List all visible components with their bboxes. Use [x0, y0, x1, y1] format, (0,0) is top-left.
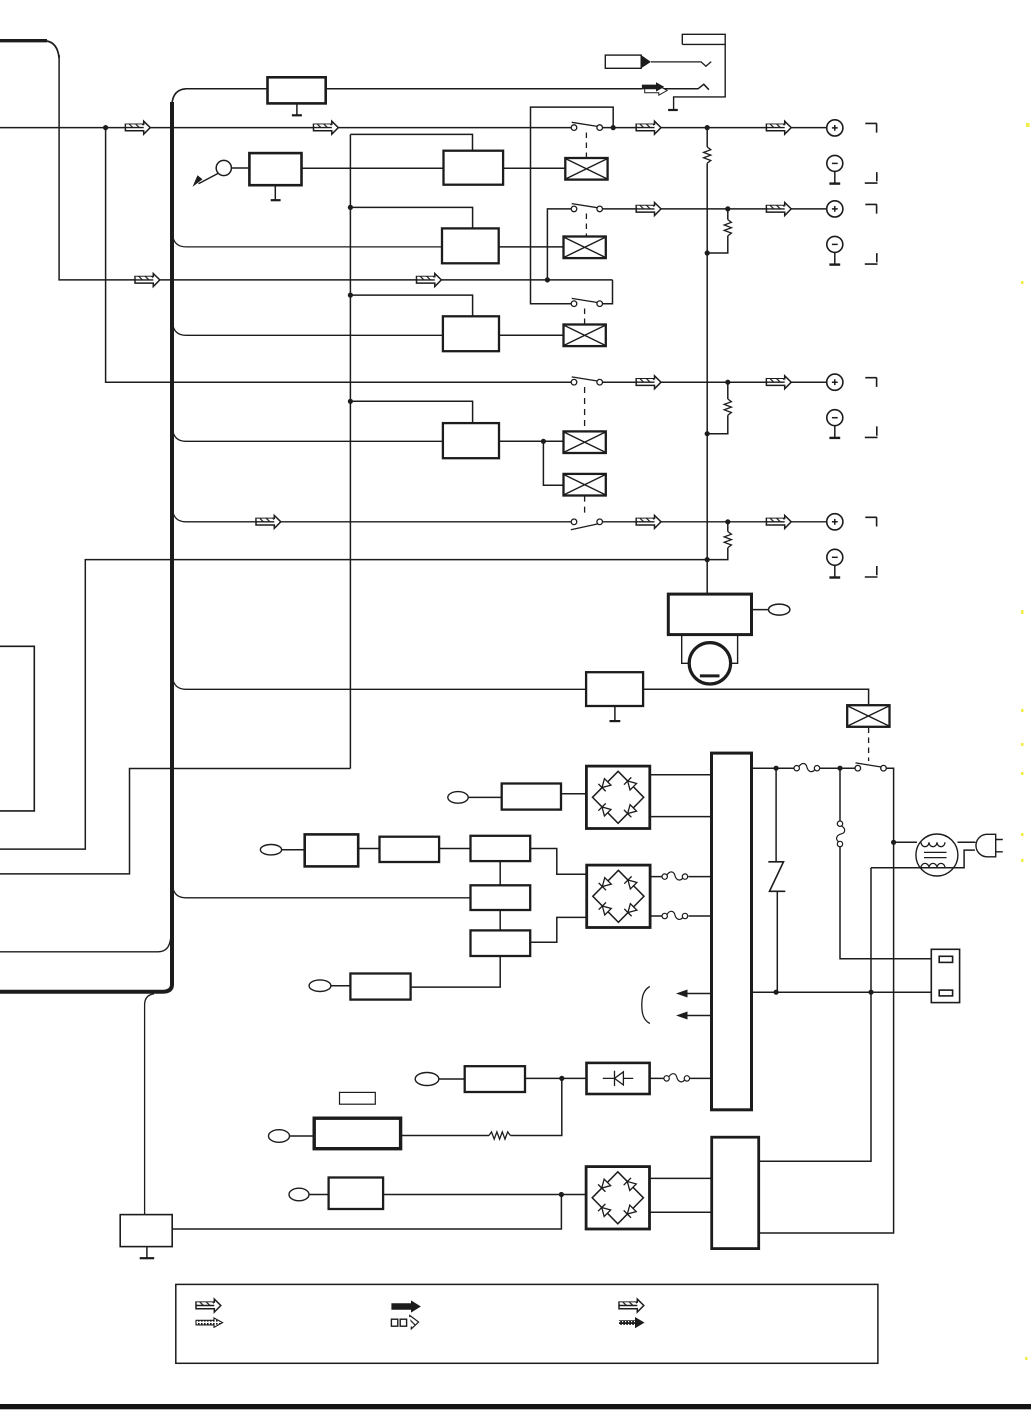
- wire trigger to bridge3: [383, 1194, 586, 1196]
- wire bus branch y88.8 to headphone line: [186, 84, 709, 89]
- switch speaker row2: [571, 204, 602, 212]
- meter bar: [700, 674, 720, 677]
- lamp ellipse: [769, 604, 790, 615]
- wire vertical distribution x350: [349, 134, 351, 768]
- headphone jack body: [674, 34, 726, 110]
- block ps2c: [471, 836, 531, 861]
- diode box D1: [587, 1063, 650, 1094]
- switch speaker row3: [571, 298, 602, 306]
- speaker terminals D: [827, 514, 878, 578]
- wire bridge2 low-out: [649, 915, 711, 917]
- wire into transformer: [894, 841, 917, 843]
- arrow row5 d: [766, 515, 791, 528]
- block left edge tall: [0, 646, 34, 811]
- resistor R3: [724, 399, 731, 415]
- arrow rail left out2: [679, 1015, 712, 1017]
- wire speaker return bus x707: [706, 128, 708, 594]
- pot control circle with arrow: [216, 160, 231, 175]
- wire transformer to plug upper: [958, 841, 976, 843]
- legend arrow dotted: [196, 1318, 223, 1327]
- wire left input lower to x350: [0, 769, 350, 874]
- block selector bottom right: [712, 1137, 759, 1248]
- arrow row1 d: [766, 121, 791, 134]
- transformer circle: [916, 834, 958, 876]
- fuse F5: [664, 1074, 690, 1082]
- node AC fuse-tap: [837, 766, 842, 771]
- block F amp4: [443, 423, 499, 458]
- wire power switch out to transformer: [759, 768, 894, 1233]
- breaker Z wire upper: [775, 768, 777, 862]
- arrow row1 a: [125, 121, 150, 134]
- wire standby: [439, 1078, 465, 1080]
- block ps1: [502, 784, 561, 810]
- wire bus branch y897: [173, 885, 471, 898]
- block ps4: [471, 930, 531, 956]
- node relay4 split: [541, 439, 546, 444]
- node row2 res top: [725, 206, 730, 211]
- resistor R4: [724, 532, 731, 548]
- speaker terminals A: [827, 120, 878, 184]
- switch speaker row5: [571, 519, 603, 530]
- wire trigger: [309, 1194, 329, 1196]
- node trigger join: [559, 1192, 564, 1197]
- wire volume to tone box: [302, 167, 444, 169]
- wire ps4 to bridge2 lower: [530, 917, 587, 942]
- relay coil 4b: [564, 474, 606, 496]
- node x350 tap1: [348, 205, 353, 210]
- wire tap2 to block E: [350, 295, 472, 316]
- transformer primary coil: [921, 842, 945, 846]
- wire C out to relay1: [503, 167, 565, 169]
- wire ps2bc: [439, 848, 470, 850]
- wire bus branch to block E: [173, 322, 443, 335]
- wire bus branch row5: [173, 509, 827, 522]
- node row2 feed tap: [545, 277, 550, 282]
- label small rect: [340, 1092, 376, 1104]
- arrow row5 a: [256, 515, 281, 528]
- arrow row5 c: [636, 515, 661, 528]
- wire bus branch to block D: [173, 234, 443, 247]
- switch speaker row1: [571, 122, 602, 130]
- wire to indicator lamp: [752, 609, 769, 611]
- node row1 x707: [705, 125, 710, 130]
- wire bus drop to muting block: [145, 994, 154, 1215]
- resistor R2: [724, 220, 731, 236]
- node transformer primary: [891, 840, 896, 845]
- wire ps5: [331, 985, 351, 987]
- page bottom rule: [0, 1404, 1031, 1409]
- node x350 tap3: [348, 399, 353, 404]
- arrow rail left out1: [679, 993, 712, 995]
- wire ps2: [282, 849, 305, 851]
- terminal ellipse ps1: [448, 792, 468, 804]
- relay power coil: [847, 705, 889, 727]
- wire resistor up to standby join: [510, 1078, 561, 1135]
- block muting with ground: [120, 1215, 172, 1247]
- wire tap up to row2 switch: [547, 209, 571, 280]
- wire E out to relay3: [499, 334, 564, 336]
- switch power: [855, 763, 886, 771]
- node row1 tap: [103, 125, 108, 130]
- wire ps2c to bridge2: [530, 849, 587, 875]
- legend arrow solid: [391, 1300, 421, 1312]
- wire D out to relay2: [499, 246, 564, 248]
- legend arrow darkdot: [619, 1318, 635, 1325]
- wire bus left branch y951: [0, 939, 171, 952]
- dashed link switch1-relay1: [585, 133, 587, 159]
- arrow row4 d: [766, 376, 791, 389]
- node rail-z: [774, 990, 779, 995]
- AC plug body: [976, 834, 996, 857]
- dashed link relay-power switch: [868, 728, 870, 762]
- wire plug tip to jack contact: [651, 62, 711, 67]
- terminal ellipse ps2: [260, 845, 281, 855]
- wire row1 bypass loop: [531, 107, 614, 304]
- wire remote to resistor: [401, 1135, 489, 1137]
- bridge rectifier 2: [587, 865, 650, 927]
- node AC z-tap: [774, 766, 779, 771]
- relay coil 4a: [564, 431, 606, 453]
- wire ps1: [468, 796, 502, 798]
- wire tap3 to block F: [350, 401, 472, 423]
- terminal ellipse trigger: [289, 1188, 309, 1201]
- ground jack sleeve: [668, 109, 678, 111]
- signal bus thick vertical: [172, 89, 186, 104]
- wire bus branch to block G: [173, 677, 587, 690]
- legend arrow rings: [391, 1316, 418, 1329]
- connector AC outlet: [931, 949, 959, 1002]
- node standby join: [559, 1076, 564, 1081]
- bridge rectifier 3: [586, 1167, 649, 1229]
- relay coil 3: [564, 325, 606, 347]
- arrow row4 c: [636, 376, 661, 389]
- fuse F4: [662, 911, 688, 919]
- dashed link switch3-relay3: [584, 309, 586, 325]
- node row3 res top: [725, 380, 730, 385]
- meter hanger left: [682, 635, 690, 664]
- wire bus branch to block F: [173, 428, 443, 441]
- terminal ellipse ps5: [309, 980, 331, 992]
- resistor R1 inline: [704, 147, 711, 163]
- wire R4 return: [707, 522, 728, 560]
- legend arrow hatched: [196, 1299, 221, 1312]
- node row3 return: [705, 431, 710, 436]
- dashed link switch4-relay4a: [584, 387, 586, 431]
- specks scan artifacts: [1021, 123, 1030, 1360]
- wire transformer return: [759, 868, 871, 1162]
- wire remote: [290, 1135, 315, 1137]
- wire thick input top-left: [0, 39, 47, 42]
- transformer core: [924, 852, 947, 857]
- block ps3: [471, 885, 531, 910]
- wire main row1 line: [0, 127, 827, 129]
- arrow row1 b: [314, 121, 339, 134]
- node row4 res top: [725, 519, 730, 524]
- wire row3 switch out up to row2 feed: [603, 280, 613, 304]
- wire G out to power relay: [643, 689, 869, 705]
- relay coil 2: [564, 237, 606, 259]
- meter hanger right: [731, 635, 738, 664]
- arrow row1 c: [636, 121, 661, 134]
- transformer secondary coil: [921, 863, 945, 867]
- block ps2b: [380, 837, 440, 862]
- wire row4 feed from row1 tap: [106, 128, 827, 383]
- wire transformer bottom lead: [871, 850, 975, 868]
- node row2 return: [705, 250, 710, 255]
- speaker terminals B: [827, 201, 878, 265]
- wire F out to relay4a: [499, 440, 564, 442]
- wire ps4 bottom to ps5: [411, 956, 501, 987]
- block ps2a: [305, 834, 359, 866]
- arrow solid headphone signal: [645, 86, 667, 95]
- block standby: [465, 1066, 525, 1092]
- node rail-return: [868, 990, 873, 995]
- block trigger: [329, 1178, 384, 1210]
- block remote thick: [314, 1118, 400, 1149]
- wire left input upper long to power: [0, 560, 707, 850]
- rail strip box: [712, 753, 752, 1110]
- wire left vertical to row2 feed: [59, 55, 612, 280]
- wire ps2c-ps3 link: [499, 861, 501, 885]
- wire AC line from rail box: [752, 767, 856, 769]
- wire ps3-ps4 link: [499, 910, 501, 930]
- block G muting with ground: [586, 672, 643, 706]
- plug symbol with triangle tip: [605, 55, 641, 68]
- block volume with ground: [249, 153, 301, 185]
- AC plug prongs: [996, 840, 1003, 852]
- block E amp3: [443, 316, 499, 351]
- legend arrow hatch2: [619, 1299, 644, 1312]
- wire R3 return: [707, 382, 728, 434]
- fuse AC primary: [794, 764, 820, 772]
- bridge rectifier 1: [586, 766, 649, 828]
- resistor R5 horizontal: [489, 1132, 510, 1139]
- terminal ellipse standby: [415, 1073, 439, 1086]
- block top mute with ground: [268, 77, 326, 103]
- breaker Z wire lower: [776, 891, 778, 992]
- wire standby to diode: [525, 1077, 587, 1079]
- wire bridge2 up-out: [649, 876, 711, 878]
- legend frame: [176, 1284, 878, 1363]
- arrow row2feed a: [135, 274, 160, 287]
- arrow row2 c: [636, 203, 661, 216]
- block protection with indicator: [668, 594, 751, 635]
- wire R2 return: [707, 209, 728, 253]
- wire muting return: [172, 1195, 561, 1230]
- terminal ellipse remote: [269, 1130, 290, 1143]
- relay coil 1: [565, 158, 607, 180]
- node x350 tap2: [348, 293, 353, 298]
- speaker terminals C: [827, 374, 878, 438]
- fuse F2 vertical: [837, 821, 845, 847]
- fuse F3: [662, 872, 688, 880]
- brace outputs: [642, 987, 650, 1024]
- breaker Z symbol: [768, 862, 785, 892]
- meter circle: [689, 643, 730, 684]
- wire split down to relay4b: [543, 441, 563, 485]
- node row1 out: [611, 125, 616, 130]
- block ps5: [350, 974, 410, 1000]
- wire bridge1 outs: [650, 775, 712, 817]
- dashed link switch2-relay2: [585, 214, 587, 237]
- wire fuse2 branch: [840, 768, 931, 959]
- node row4 return: [705, 557, 710, 562]
- arrow row2feed b: [417, 274, 442, 287]
- wire ps2ab: [358, 848, 379, 850]
- wire tap1 to block D: [350, 207, 472, 228]
- wire x350 top to block C: [350, 134, 472, 150]
- block C amp1: [444, 151, 504, 185]
- wire rail bottom: [752, 991, 932, 993]
- wire row2 out: [603, 208, 827, 210]
- wire ps1 to bridge1: [561, 793, 586, 795]
- wire F5 out: [650, 1077, 712, 1079]
- wire bridge3 outs: [649, 1178, 711, 1212]
- arrow row2 d: [766, 203, 791, 216]
- switch speaker row4: [571, 377, 602, 385]
- block D amp2: [442, 228, 499, 263]
- dashed link relay4b-switch5: [584, 496, 586, 518]
